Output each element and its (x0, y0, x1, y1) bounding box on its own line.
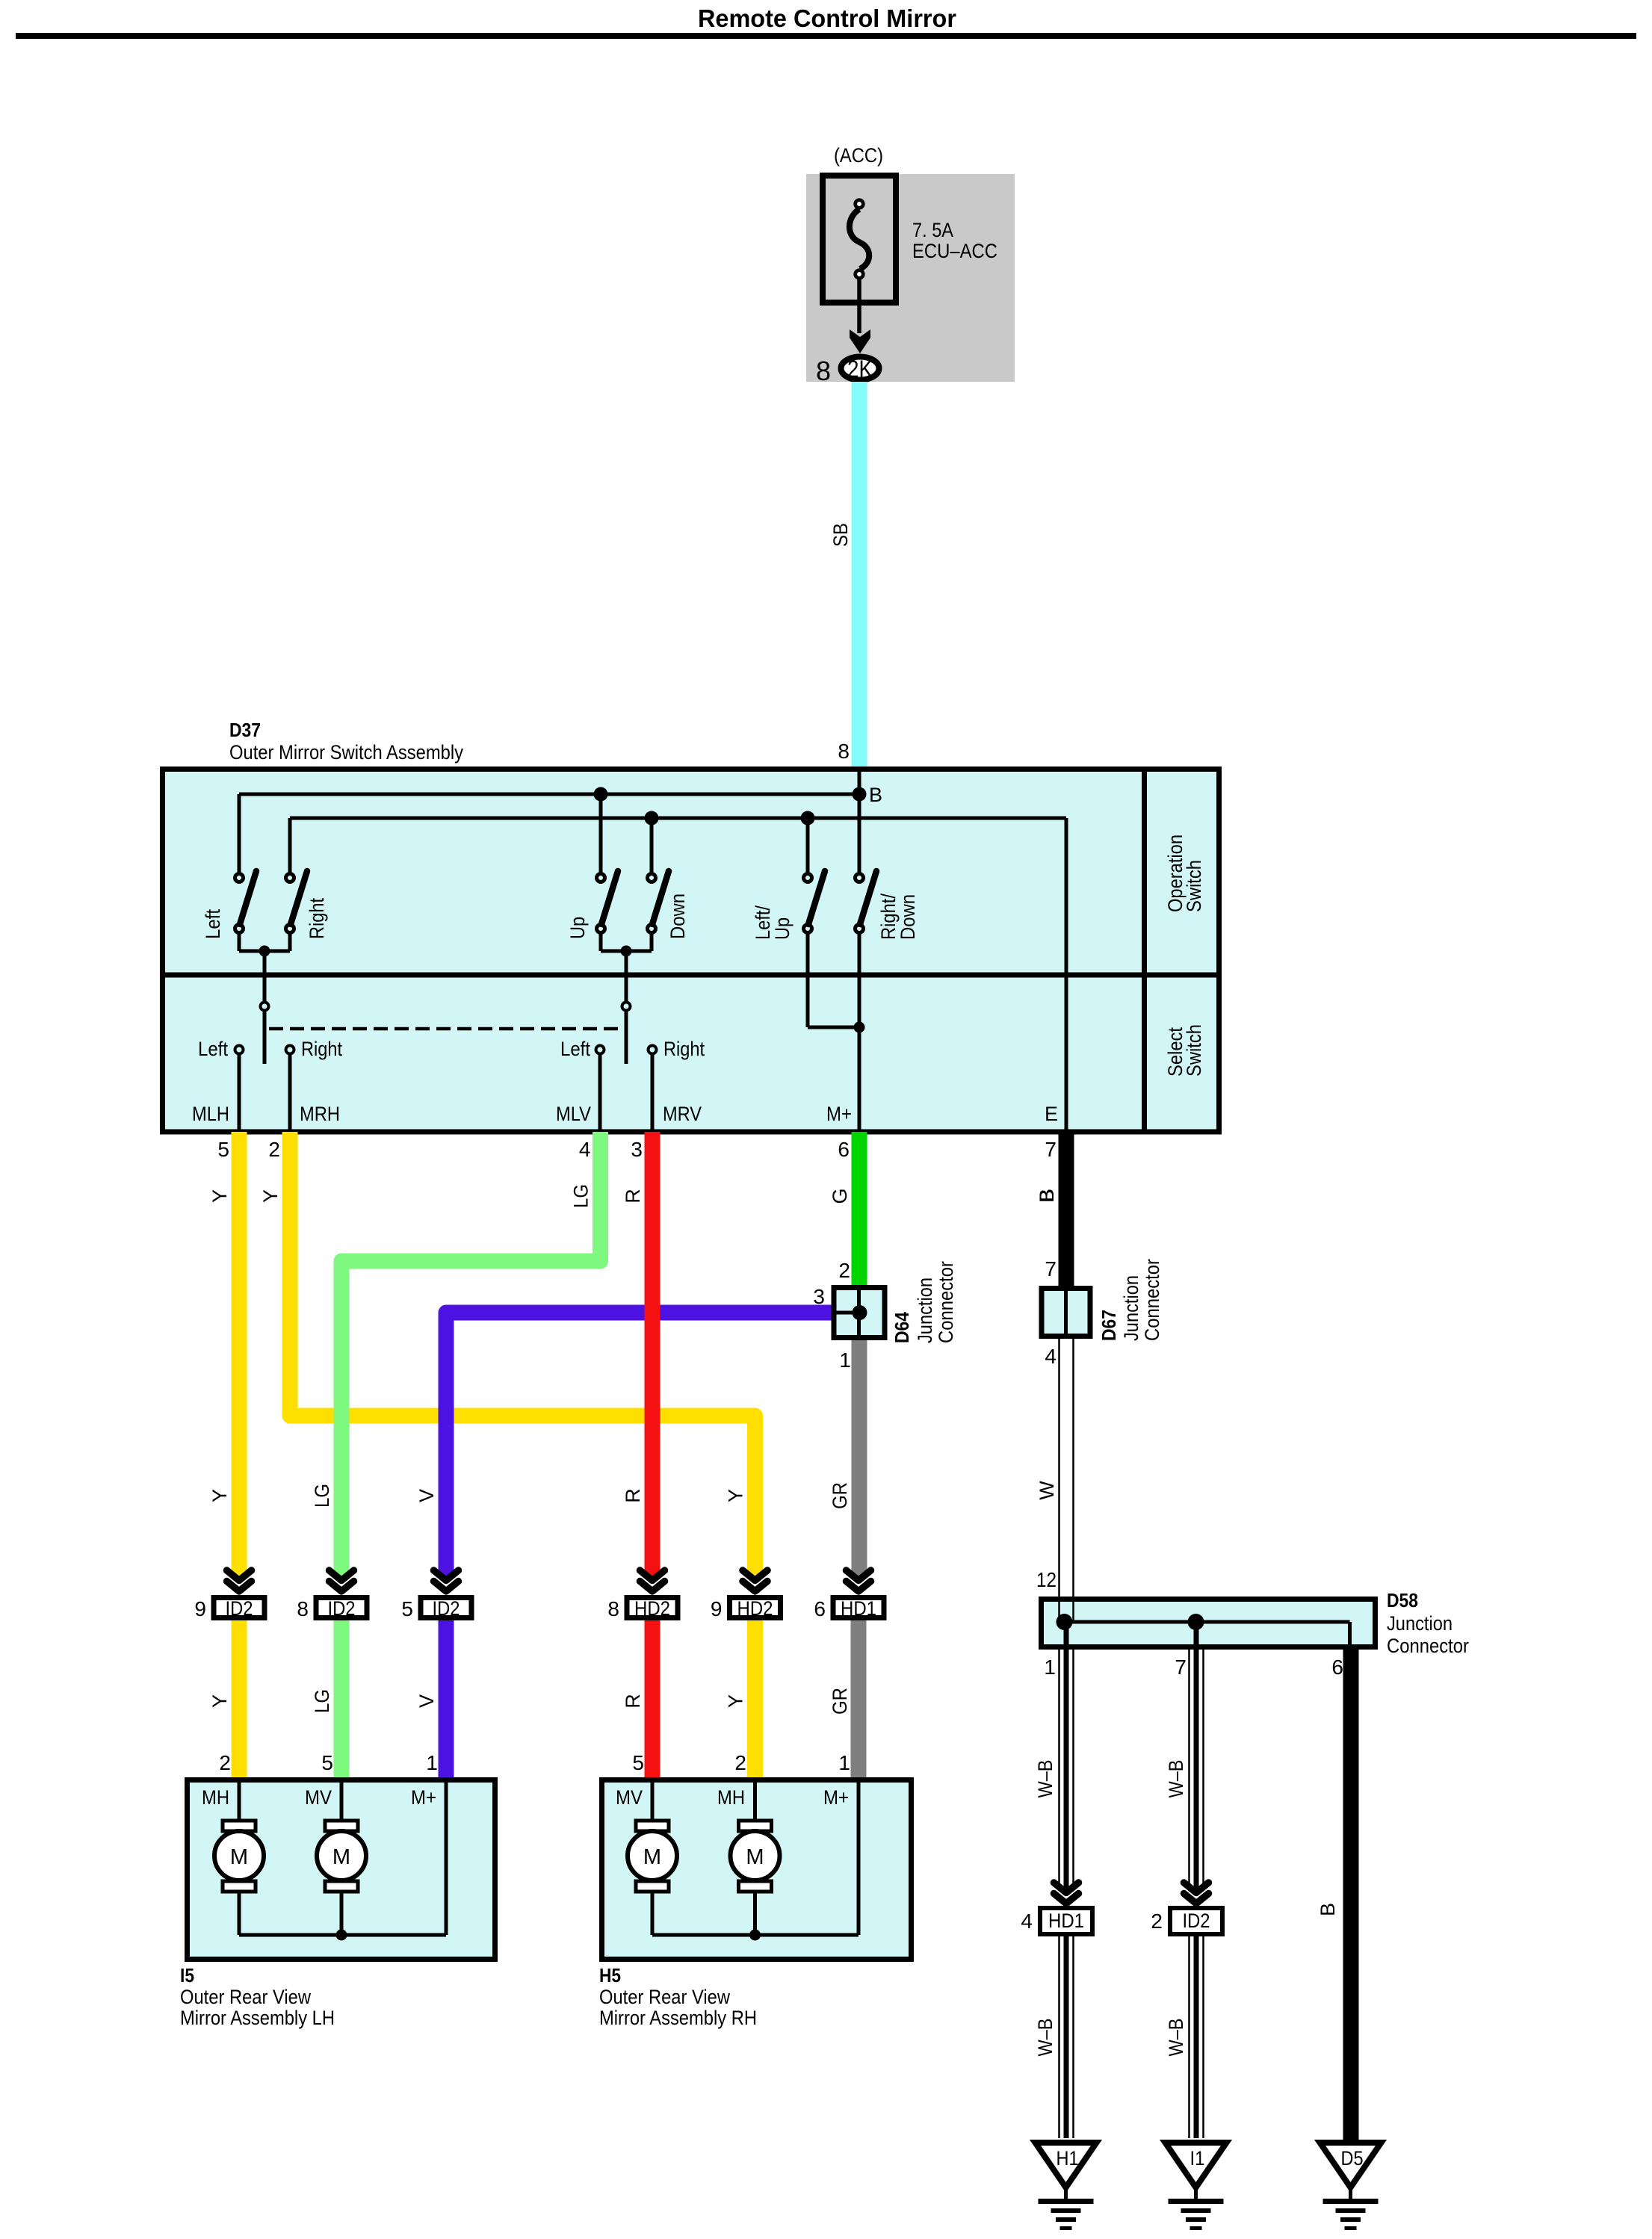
svg-text:Junction: Junction (1120, 1275, 1142, 1341)
svg-text:HD1: HD1 (841, 1597, 876, 1620)
svg-text:8: 8 (297, 1597, 309, 1620)
svg-text:2: 2 (734, 1751, 746, 1774)
svg-text:Mirror Assembly RH: Mirror Assembly RH (599, 2007, 757, 2029)
svg-text:ID2: ID2 (226, 1597, 253, 1620)
svg-text:I1: I1 (1190, 2147, 1205, 2170)
svg-text:M+: M+ (826, 1103, 852, 1125)
svg-text:9: 9 (194, 1597, 206, 1620)
svg-text:V: V (415, 1489, 438, 1502)
svg-text:W–B: W–B (1165, 2019, 1187, 2057)
svg-text:Junction: Junction (914, 1278, 936, 1343)
svg-text:W–B: W–B (1165, 1760, 1187, 1798)
svg-text:2: 2 (268, 1138, 280, 1161)
svg-text:E: E (1045, 1103, 1058, 1125)
svg-text:1: 1 (839, 1348, 851, 1372)
svg-text:Y: Y (208, 1694, 231, 1708)
svg-text:2: 2 (219, 1751, 231, 1774)
svg-text:ID2: ID2 (328, 1597, 356, 1620)
svg-text:B: B (869, 784, 882, 806)
svg-text:D67: D67 (1098, 1310, 1120, 1341)
svg-text:Outer Mirror Switch Assembly: Outer Mirror Switch Assembly (229, 741, 463, 764)
svg-text:Left: Left (560, 1038, 590, 1060)
svg-text:Right: Right (663, 1038, 705, 1060)
svg-text:7: 7 (1175, 1656, 1187, 1679)
svg-text:R: R (622, 1488, 644, 1503)
svg-text:3: 3 (813, 1285, 825, 1308)
svg-text:D37: D37 (229, 719, 261, 741)
svg-text:M: M (746, 1845, 764, 1869)
svg-text:5: 5 (401, 1597, 413, 1620)
svg-text:Y: Y (208, 1489, 231, 1502)
svg-text:Connector: Connector (1387, 1635, 1469, 1657)
svg-text:2: 2 (1151, 1910, 1163, 1933)
svg-text:1: 1 (426, 1751, 438, 1774)
svg-text:HD1: HD1 (1048, 1910, 1084, 1932)
svg-text:M+: M+ (411, 1786, 436, 1809)
svg-text:9: 9 (711, 1597, 723, 1620)
svg-text:I5: I5 (180, 1964, 194, 1986)
svg-text:LG: LG (311, 1484, 333, 1508)
svg-text:HD2: HD2 (634, 1597, 670, 1620)
svg-text:M: M (332, 1845, 350, 1869)
svg-text:Down: Down (666, 894, 689, 939)
svg-text:12: 12 (1036, 1568, 1057, 1591)
svg-text:MH: MH (717, 1786, 745, 1809)
svg-text:Down: Down (897, 894, 919, 940)
svg-text:(ACC): (ACC) (834, 144, 883, 167)
svg-text:Left: Left (198, 1038, 228, 1060)
svg-text:7: 7 (1045, 1257, 1057, 1280)
svg-text:B: B (1317, 1903, 1339, 1916)
svg-text:8: 8 (607, 1597, 619, 1620)
svg-text:LG: LG (311, 1689, 333, 1713)
svg-text:MRH: MRH (300, 1103, 340, 1125)
svg-text:GR: GR (829, 1688, 851, 1715)
svg-text:2K: 2K (847, 356, 873, 383)
svg-text:1: 1 (1044, 1656, 1056, 1679)
svg-text:ID2: ID2 (433, 1597, 460, 1620)
svg-text:H1: H1 (1057, 2147, 1079, 2170)
svg-text:MV: MV (616, 1786, 643, 1809)
svg-text:Junction: Junction (1387, 1612, 1453, 1635)
svg-text:R: R (622, 1189, 644, 1204)
svg-text:W: W (1036, 1481, 1058, 1500)
svg-text:Connector: Connector (1141, 1259, 1163, 1341)
svg-text:4: 4 (1021, 1910, 1033, 1933)
svg-text:5: 5 (217, 1138, 229, 1161)
svg-text:MRV: MRV (663, 1103, 702, 1125)
svg-text:Outer Rear View: Outer Rear View (180, 1986, 311, 2008)
svg-text:Switch: Switch (1183, 860, 1205, 912)
svg-text:MLH: MLH (192, 1103, 229, 1125)
svg-text:Switch: Switch (1183, 1024, 1205, 1077)
svg-text:MH: MH (202, 1786, 229, 1809)
svg-text:W–B: W–B (1034, 2019, 1057, 2057)
svg-text:7. 5A: 7. 5A (912, 219, 953, 241)
svg-text:Connector: Connector (935, 1261, 957, 1343)
svg-text:Left: Left (202, 909, 224, 939)
svg-text:D64: D64 (891, 1312, 913, 1343)
svg-text:W–B: W–B (1034, 1760, 1057, 1798)
svg-text:3: 3 (631, 1138, 643, 1161)
svg-text:7: 7 (1045, 1138, 1057, 1161)
svg-text:LG: LG (570, 1184, 593, 1208)
svg-text:Right: Right (301, 1038, 342, 1060)
svg-text:5: 5 (632, 1751, 644, 1774)
svg-text:H5: H5 (599, 1964, 621, 1986)
svg-text:Y: Y (725, 1694, 747, 1708)
svg-text:B: B (1036, 1189, 1058, 1202)
svg-text:M: M (643, 1845, 661, 1869)
svg-text:8: 8 (838, 740, 850, 763)
svg-text:Outer Rear View: Outer Rear View (599, 1986, 730, 2008)
svg-text:Y: Y (725, 1489, 747, 1502)
svg-text:D5: D5 (1341, 2147, 1364, 2170)
svg-text:Remote Control Mirror: Remote Control Mirror (698, 4, 956, 32)
svg-text:Mirror Assembly LH: Mirror Assembly LH (180, 2007, 335, 2029)
svg-text:1: 1 (838, 1751, 850, 1774)
svg-text:6: 6 (1331, 1656, 1343, 1679)
svg-text:6: 6 (814, 1597, 826, 1620)
svg-text:G: G (829, 1188, 851, 1204)
svg-text:5: 5 (321, 1751, 333, 1774)
svg-text:V: V (415, 1694, 438, 1708)
svg-text:Y: Y (259, 1189, 282, 1203)
svg-text:Y: Y (208, 1189, 231, 1203)
svg-text:HD2: HD2 (737, 1597, 773, 1620)
svg-text:Up: Up (771, 917, 793, 940)
svg-text:M: M (230, 1845, 248, 1869)
svg-text:D58: D58 (1387, 1589, 1418, 1611)
svg-text:SB: SB (829, 523, 852, 547)
svg-text:2: 2 (838, 1259, 850, 1282)
svg-text:MLV: MLV (556, 1103, 591, 1125)
svg-text:Up: Up (566, 917, 589, 939)
svg-text:6: 6 (838, 1138, 850, 1161)
svg-text:4: 4 (1045, 1345, 1057, 1368)
svg-text:R: R (622, 1694, 644, 1709)
svg-text:M+: M+ (823, 1786, 849, 1809)
svg-text:ECU–ACC: ECU–ACC (912, 240, 997, 262)
svg-text:8: 8 (816, 356, 831, 386)
svg-text:ID2: ID2 (1183, 1910, 1210, 1932)
svg-text:4: 4 (579, 1138, 591, 1161)
svg-text:GR: GR (829, 1482, 851, 1509)
svg-text:Right: Right (306, 898, 328, 939)
svg-text:MV: MV (305, 1786, 332, 1809)
